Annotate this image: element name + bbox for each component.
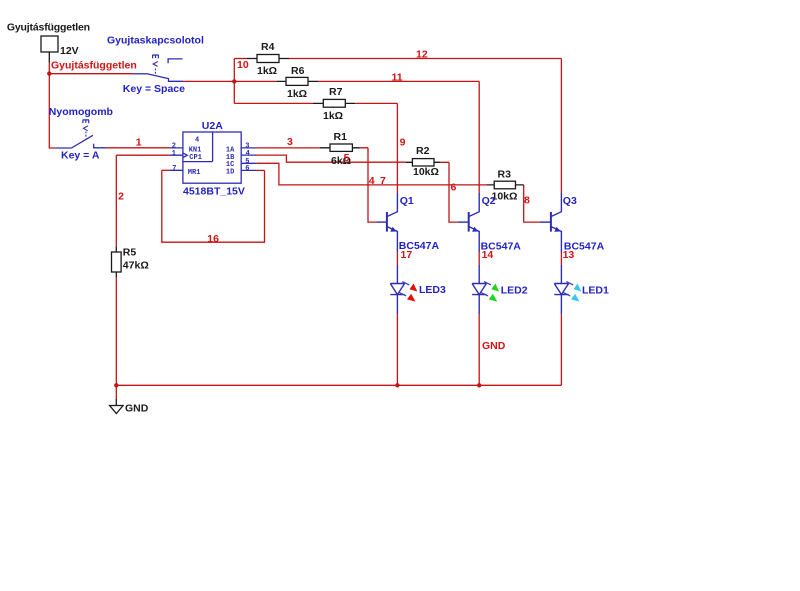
svg-text:1: 1 bbox=[172, 150, 176, 158]
svg-text:6: 6 bbox=[245, 165, 249, 173]
svg-text:10kΩ: 10kΩ bbox=[413, 166, 439, 178]
svg-text:MR1: MR1 bbox=[188, 169, 201, 177]
svg-text:9: 9 bbox=[400, 137, 406, 149]
svg-text:R3: R3 bbox=[498, 169, 512, 181]
svg-text:Gyujtásfüggetlen: Gyujtásfüggetlen bbox=[51, 60, 137, 72]
svg-text:Gyujtásfüggetlen: Gyujtásfüggetlen bbox=[7, 22, 90, 34]
svg-text:LED1: LED1 bbox=[582, 285, 609, 297]
svg-text:GND: GND bbox=[482, 340, 506, 352]
svg-text:1kΩ: 1kΩ bbox=[257, 65, 277, 77]
svg-text:CP1: CP1 bbox=[189, 154, 202, 162]
svg-text:6: 6 bbox=[451, 182, 457, 194]
svg-text:Gyujtaskapcsolotol: Gyujtaskapcsolotol bbox=[107, 34, 204, 46]
svg-text:14: 14 bbox=[482, 249, 494, 261]
svg-text:LED3: LED3 bbox=[419, 284, 446, 296]
svg-text:4518BT_15V: 4518BT_15V bbox=[183, 185, 245, 197]
svg-text:R6: R6 bbox=[291, 65, 305, 77]
svg-text:Q1: Q1 bbox=[400, 195, 414, 207]
svg-text:2: 2 bbox=[118, 191, 124, 203]
svg-text:R7: R7 bbox=[329, 86, 343, 98]
svg-text:R2: R2 bbox=[416, 145, 430, 157]
svg-text:GND: GND bbox=[125, 402, 149, 414]
svg-text:13: 13 bbox=[563, 249, 575, 261]
svg-text:Nyomogomb: Nyomogomb bbox=[49, 106, 113, 118]
svg-text:4: 4 bbox=[195, 136, 199, 144]
svg-text:Key = Space: Key = Space bbox=[123, 83, 185, 95]
svg-text:Q3: Q3 bbox=[563, 195, 577, 207]
svg-text:12: 12 bbox=[416, 49, 428, 61]
svg-text:11: 11 bbox=[392, 72, 403, 84]
svg-text:Q2: Q2 bbox=[482, 195, 496, 207]
svg-text:7: 7 bbox=[380, 175, 386, 187]
svg-text:1D: 1D bbox=[226, 169, 234, 177]
svg-text:1kΩ: 1kΩ bbox=[287, 88, 307, 100]
svg-text:17: 17 bbox=[401, 249, 413, 261]
svg-text:7: 7 bbox=[172, 165, 176, 173]
svg-text:10: 10 bbox=[237, 59, 249, 71]
svg-text:16: 16 bbox=[207, 233, 219, 245]
svg-text:LED2: LED2 bbox=[501, 285, 528, 297]
svg-text:R5: R5 bbox=[123, 247, 137, 259]
svg-text:U2A: U2A bbox=[202, 120, 223, 132]
svg-text:4: 4 bbox=[246, 150, 250, 158]
svg-text:12V: 12V bbox=[60, 45, 79, 57]
svg-text:1kΩ: 1kΩ bbox=[323, 110, 343, 122]
svg-text:3: 3 bbox=[287, 136, 293, 148]
svg-text:5: 5 bbox=[344, 152, 350, 164]
svg-text:47kΩ: 47kΩ bbox=[123, 260, 149, 272]
svg-text:R1: R1 bbox=[334, 131, 348, 143]
svg-text:Key = A: Key = A bbox=[61, 150, 100, 162]
svg-text:1: 1 bbox=[136, 137, 142, 149]
svg-text:4: 4 bbox=[369, 175, 375, 187]
svg-text:8: 8 bbox=[524, 195, 530, 207]
svg-text:R4: R4 bbox=[261, 41, 275, 53]
